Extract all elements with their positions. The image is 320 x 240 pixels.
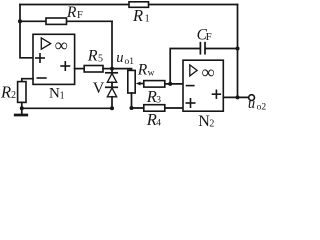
wire: left vertical drop to + input of N1 <box>20 5 33 58</box>
svg-text:∞: ∞ <box>202 62 215 82</box>
resistor R1 <box>129 2 150 25</box>
svg-text:o1: o1 <box>125 57 135 67</box>
diode V2 <box>106 82 117 108</box>
op-amp N1 <box>33 34 75 101</box>
ground <box>15 108 27 115</box>
svg-text:R: R <box>0 83 11 102</box>
wire: right vertical feedback line <box>237 5 239 98</box>
resistor R4 <box>144 105 165 129</box>
svg-text:5: 5 <box>98 54 103 65</box>
node: CF joins right vertical feedback line <box>236 47 240 51</box>
svg-text:R: R <box>132 6 143 25</box>
resistor R5 <box>84 47 103 72</box>
resistor R3 <box>144 81 165 106</box>
wire: CF feedback branch <box>170 49 237 84</box>
svg-text:u: u <box>116 50 123 66</box>
svg-text:∞: ∞ <box>55 35 68 55</box>
op-amp N2 <box>183 60 223 130</box>
wire: N2 output <box>223 96 248 98</box>
wire: bottom ground rail <box>22 107 112 109</box>
wire: RF branch vertical down to u_o1 node <box>111 21 113 68</box>
svg-text:u: u <box>248 96 255 112</box>
svg-text:R: R <box>137 61 148 78</box>
svg-text:V: V <box>93 80 105 97</box>
terminal u_o2 <box>248 95 266 113</box>
capacitor CF <box>197 26 212 53</box>
svg-text:R: R <box>66 4 77 21</box>
resistor RF <box>46 4 83 24</box>
node: output to feedback junction <box>236 95 240 99</box>
node: CF feedback tap on inverting input <box>168 82 172 86</box>
resistor R2 <box>0 82 26 103</box>
wire: RF branch horizontal <box>20 20 112 22</box>
node: junction of RF branch on left vertical <box>18 19 22 23</box>
wire: top feedback net from u_o2 to N1 noninverting input <box>20 4 238 6</box>
svg-text:1: 1 <box>60 91 65 102</box>
potentiometer Rw <box>128 61 155 93</box>
wire: R4 to N2 noninverting input <box>165 107 183 109</box>
svg-text:F: F <box>77 10 83 21</box>
wire: u_o1 to Rw top <box>112 69 132 71</box>
svg-text:o2: o2 <box>257 102 267 112</box>
svg-text:N: N <box>49 86 60 102</box>
svg-text:w: w <box>148 69 155 79</box>
svg-text:2: 2 <box>209 119 214 130</box>
wire: R5 to u_o1 node <box>103 68 112 70</box>
wire: N1 output to R5 <box>75 68 85 70</box>
svg-text:4: 4 <box>156 119 161 129</box>
node: ground rail junction below R2 <box>20 106 24 110</box>
node u_o1 <box>110 50 134 70</box>
svg-text:1: 1 <box>145 13 150 24</box>
wire: R3 to N2 inverting input <box>165 83 183 85</box>
wire: R2 bottom lead <box>21 102 23 108</box>
diode V1 <box>106 69 117 83</box>
wire: R2 top to N1 inverting input <box>22 79 33 82</box>
svg-text:F: F <box>206 31 212 43</box>
svg-text:2: 2 <box>11 90 16 101</box>
svg-text:R: R <box>87 47 98 64</box>
node: diode bottom junction on ground rail <box>110 106 114 110</box>
wire: Rw bottom leg to R4 <box>132 93 144 108</box>
node: junction at Rw bottom corner <box>130 106 134 110</box>
